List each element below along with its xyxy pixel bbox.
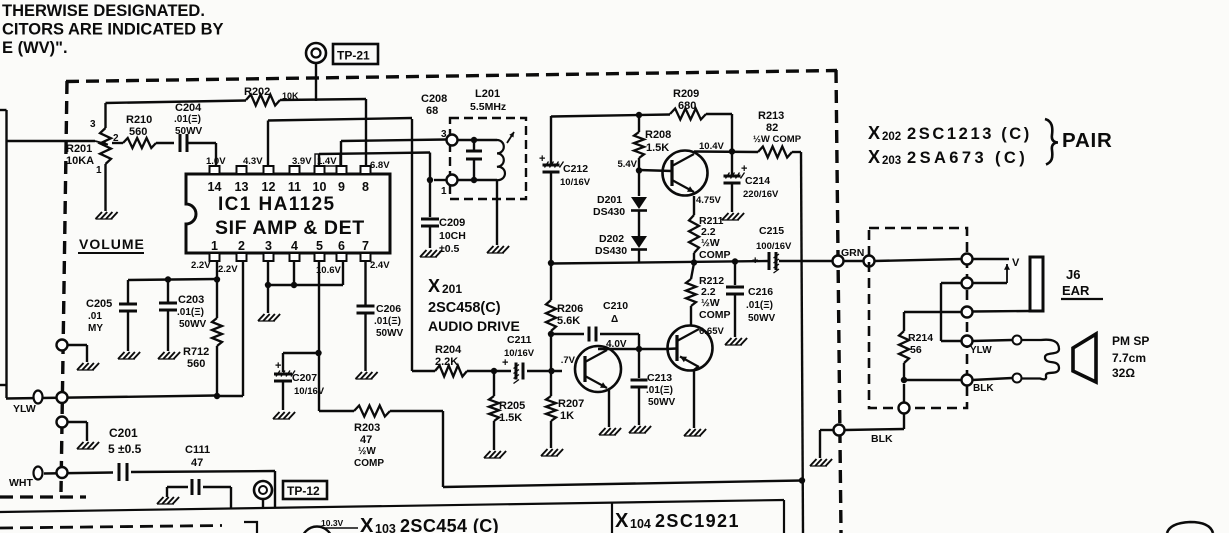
module dashed border right [836,70,841,533]
capacitor C210 [551,300,639,342]
terminal GRN module edge [833,256,844,267]
voltage labels top pins [206,154,390,171]
svg-text:TP-12: TP-12 [287,484,320,498]
pair brace [1045,119,1058,165]
svg-text:GRN: GRN [841,247,864,259]
connector speaker YLW [1013,336,1022,345]
svg-text:.01(Ξ): .01(Ξ) [174,114,201,125]
next module dashed top [0,526,222,529]
coil L201 dashed box [450,118,526,199]
node X201 base junction [548,368,554,374]
X104 box left edge [611,503,613,533]
svg-text:.01(Ξ): .01(Ξ) [646,385,673,396]
wire YLW row [6,396,216,399]
capacitor C209 [421,180,466,255]
wire rail to output row [550,172,552,263]
svg-text:MY: MY [88,323,103,334]
svg-text:6: 6 [338,239,345,253]
svg-text:X: X [615,510,629,532]
wire X203 emitter [694,367,698,428]
ground X201 emitter [599,428,621,435]
VOLUME label [78,236,145,253]
svg-text:2.2V: 2.2V [218,264,238,275]
wire pins3-4-6 tie [268,262,343,285]
voltage label .7V [561,355,576,366]
ground R207 [541,449,563,456]
svg-text:+: + [502,357,508,369]
wire GRN inside jack box [874,259,962,261]
wire L201 bottom [457,179,497,181]
svg-text:4: 4 [291,239,298,253]
IC1 label [215,194,365,239]
svg-text:½W COMP: ½W COMP [753,134,802,145]
wire X202 emitter [693,196,695,215]
svg-text:D201: D201 [597,194,622,206]
svg-text:680: 680 [678,100,696,112]
resistor R712 [183,279,222,396]
wire jack switch to R214 [904,312,962,331]
svg-text:4.0V: 4.0V [606,339,627,350]
svg-text:C213: C213 [647,372,672,384]
svg-text:82: 82 [766,122,778,134]
capacitor C206 [357,303,404,371]
ground R201 [96,164,118,219]
ground C213 [629,426,651,433]
svg-text:.01(Ξ): .01(Ξ) [374,316,401,327]
svg-text:100/16V: 100/16V [756,241,792,252]
svg-text:10/16V: 10/16V [294,386,325,397]
svg-text:10: 10 [313,180,327,194]
svg-text:R201: R201 [66,143,92,155]
svg-text:5 ±0.5: 5 ±0.5 [108,442,142,456]
capacitor C208 label [421,93,447,117]
wire pin5 to R203 [319,410,354,412]
svg-text:EAR: EAR [1062,283,1090,298]
svg-text:C210: C210 [603,300,628,312]
wire pin2 drop [216,262,243,396]
capacitor C207 [274,353,325,410]
svg-text:1.5K: 1.5K [646,142,669,154]
terminal YLW [13,391,43,416]
wire wiper to YLW (left rail) [0,110,7,398]
terminal L201 pin3 [441,129,458,146]
svg-text:2: 2 [238,239,245,253]
voltage labels bottom pins [191,260,390,276]
resistor R208 [634,115,671,196]
svg-text:3: 3 [441,129,447,140]
svg-text:47: 47 [360,434,372,446]
svg-text:5.6K: 5.6K [557,315,580,327]
wire R204 to R205 node [467,370,511,372]
svg-text:5: 5 [316,239,323,253]
svg-text:103: 103 [375,522,396,533]
svg-text:+: + [275,360,281,372]
svg-text:DS430: DS430 [595,245,627,257]
node R205 top [491,368,497,374]
wire X202 base [639,170,672,171]
svg-text:YLW: YLW [13,403,36,415]
svg-text:BLK: BLK [871,433,893,445]
ground C207 [273,412,295,419]
svg-text:14: 14 [208,180,222,194]
test point TP-12 [254,481,327,499]
wire jack tip lead [972,258,1009,260]
svg-text:50WV: 50WV [748,313,776,324]
svg-text:PM SP: PM SP [1112,334,1149,348]
svg-text:1: 1 [211,239,218,253]
capacitor C201 [108,426,275,481]
svg-text:VOLUME: VOLUME [79,236,145,252]
svg-text:Δ: Δ [611,314,618,325]
wire jack switch2 to YLW [941,283,962,341]
resistor R205 [489,371,525,450]
svg-text:C211: C211 [507,334,532,346]
node pins3-4 junction [265,282,297,288]
wire pot-top to R202 [106,101,247,129]
transistor X103 partial circle [302,527,333,533]
wire pin12-drop corner [412,370,435,372]
terminal jack switch [962,278,973,289]
svg-text:½W: ½W [701,297,720,309]
wire X202 collector [694,152,758,154]
svg-text:R210: R210 [126,114,152,126]
svg-text:2SC458(C): 2SC458(C) [428,300,501,316]
svg-text:C204: C204 [175,102,202,114]
svg-text:E (WV)".: E (WV)". [2,39,68,57]
terminal speaker BLK [962,375,995,395]
svg-text:WHT: WHT [9,477,33,489]
svg-text:SIF AMP & DET: SIF AMP & DET [215,217,365,239]
svg-text:C209: C209 [439,217,465,229]
svg-text:10CH: 10CH [439,230,466,242]
capacitor C111 [157,444,231,509]
label V [1012,257,1020,269]
svg-text:50WV: 50WV [179,319,207,330]
node C207 tap [315,350,321,356]
node R211 bottom [691,259,697,265]
earphone jack plug [1030,257,1043,311]
resistor R212 [686,263,731,326]
transistor X201 label block [428,276,520,334]
svg-text:C216: C216 [748,286,773,298]
wire R213 right drop [792,152,803,533]
svg-text:X: X [428,276,440,296]
svg-text:220/16V: 220/16V [743,189,779,200]
svg-text:R209: R209 [673,88,699,100]
capacitor C208 [466,137,482,183]
svg-text:J6: J6 [1066,267,1080,282]
svg-text:R712: R712 [183,346,209,358]
terminal jack sleeve [962,307,973,318]
terminal YLW boundary [57,392,68,403]
resistor R214 [899,331,933,380]
svg-text:47: 47 [191,457,203,469]
wire C215 to GRN [779,260,832,262]
node X202 base tap [636,167,642,173]
svg-text:10KA: 10KA [66,155,94,167]
wire pin9 route [341,140,446,167]
diode D201 [593,194,647,218]
ground L201 [487,246,509,253]
ground C203 [158,352,180,359]
wire WHT row [44,473,113,474]
svg-text:X: X [868,123,880,143]
svg-text:2SC1213 (C): 2SC1213 (C) [907,125,1032,143]
earphone jack dashed box [869,228,967,408]
svg-text:1: 1 [96,165,102,176]
svg-text:5.4V: 5.4V [617,159,637,170]
svg-text:COMP: COMP [699,249,731,261]
wire BLK to ground [820,430,833,458]
wire D201-D202 [638,211,640,237]
ground C205 [118,352,140,359]
svg-text:BLK: BLK [973,383,994,394]
IC1 bottom pin boxes [210,253,371,261]
svg-text:2.2V: 2.2V [191,260,211,271]
terminal GRN jack box [864,256,875,267]
wire BLK row [845,413,904,430]
wire output row [551,261,768,264]
terminal L201 pin1 [441,175,458,198]
wire R202 to pin8 drop [280,99,366,166]
svg-text:R204: R204 [435,344,462,356]
label BLK [871,433,893,445]
voltage label 6.65V [699,326,724,337]
ground R205 [484,451,506,458]
svg-text:68: 68 [426,105,438,117]
svg-text:50WV: 50WV [648,397,676,408]
svg-text:5.5MHz: 5.5MHz [470,101,506,113]
wire L201 top [457,139,497,141]
wire C204 to pin14 [215,143,217,166]
capacitor C205 [86,280,137,351]
svg-text:TP-21: TP-21 [337,49,370,63]
wire jack switch arrow [972,264,1010,283]
node bottom feedback [799,477,805,483]
svg-text:D202: D202 [599,233,624,245]
svg-text:L201: L201 [475,88,500,100]
ground shield lower [77,442,99,449]
node R214 bottom [901,377,907,383]
svg-text:50WV: 50WV [376,328,404,339]
svg-text:56: 56 [910,344,922,356]
svg-text:R208: R208 [645,129,671,141]
svg-text:C111: C111 [185,444,210,456]
test point TP-21 [306,43,378,64]
wire GRN gap [843,260,864,262]
svg-text:C201: C201 [109,426,138,440]
terminal shield upper [57,340,88,363]
svg-text:R205: R205 [499,400,525,412]
svg-text:1: 1 [441,186,447,197]
svg-text:DS430: DS430 [593,206,625,218]
svg-text:C206: C206 [376,303,401,315]
X104 box right edge [783,500,785,533]
wire C210 to collector node [638,334,640,349]
node R712 bottom [214,393,220,399]
svg-text:.01(Ξ): .01(Ξ) [177,307,204,318]
svg-text:YLW: YLW [970,345,992,356]
wire L201 center tap [496,180,498,245]
svg-text:V: V [1012,257,1020,269]
svg-text:X: X [868,147,880,167]
next stage box corner [244,522,257,533]
svg-text:7: 7 [362,239,369,253]
svg-text:11: 11 [288,180,301,194]
svg-text:R214: R214 [908,332,933,344]
capacitor C213 [631,349,676,425]
IC U1 IC1 HA1125 body [186,174,390,253]
voltage label 10.3V [321,518,358,528]
svg-text:2SC454 (C): 2SC454 (C) [400,516,499,533]
label J6 EAR [1061,267,1103,299]
potentiometer R201 [66,119,119,176]
terminal BLK module edge [834,425,845,436]
svg-text:R202: R202 [244,86,270,98]
stage divider line [0,500,784,512]
ground C214 [722,213,744,220]
svg-text:1.5K: 1.5K [499,412,522,424]
svg-text:1K: 1K [560,410,574,422]
transistor X104 label [615,510,740,532]
label GRN [841,247,864,259]
ground X203 emitter [684,429,706,436]
wire X201 emitter [608,390,610,427]
svg-text:R203: R203 [354,422,380,434]
capacitor C204 [156,102,216,152]
node output row left end [548,260,554,266]
svg-text:+: + [752,255,758,267]
svg-text:CITORS ARE INDICATED BY: CITORS ARE INDICATED BY [2,21,224,39]
svg-text:.7V: .7V [561,355,576,366]
wire R201 wiper [7,141,109,146]
ground BLK [810,459,832,466]
wire pin5 drop [318,262,320,411]
resistor R210 [112,114,156,148]
wire R203 to bottom [390,411,802,487]
balloon arc bottom right [1167,522,1213,533]
svg-text:C203: C203 [178,294,204,306]
svg-text:4.75V: 4.75V [696,195,721,206]
module dashed border left [61,81,67,492]
svg-text:PAIR: PAIR [1062,129,1113,152]
svg-text:12: 12 [262,180,276,194]
capacitor C216 [726,262,776,337]
svg-text:±0.5: ±0.5 [439,243,460,255]
svg-text:COMP: COMP [699,309,731,321]
wire pin12 route [268,118,412,166]
svg-text:C212: C212 [563,163,588,175]
capacitor C214 [724,151,780,212]
wire WHT to bottom line [274,471,276,508]
capacitor C211 [502,334,562,384]
wire jack sleeve lead [972,310,1030,313]
svg-text:C208: C208 [421,93,447,105]
transistor X201 [575,346,621,392]
svg-text:560: 560 [129,126,147,138]
svg-text:8: 8 [362,180,369,194]
svg-text:R213: R213 [758,110,784,122]
svg-text:13: 13 [235,180,249,194]
terminal speaker YLW [962,336,993,357]
wire D202 to output row [638,250,640,264]
wire R214 to BLK terminal [904,379,962,381]
wire pin1 node [128,262,217,280]
svg-text:7.7cm: 7.7cm [1112,351,1146,365]
svg-text:202: 202 [882,131,901,143]
node collector 10.4V [729,148,735,154]
resistor R213 [753,110,802,158]
resistor R202 [244,86,299,106]
svg-text:1.0V: 1.0V [206,156,226,167]
wire TP-21 stem [315,63,317,101]
svg-text:+: + [741,163,747,175]
node R208 top [636,112,642,118]
svg-text:4.3V: 4.3V [243,156,263,167]
svg-text:.01(Ξ): .01(Ξ) [746,300,773,311]
terminal WHT boundary [57,467,68,478]
svg-text:3: 3 [265,239,272,253]
inductor L201 winding [497,140,505,180]
svg-text:50WV: 50WV [175,126,203,137]
resistor R204 [435,344,467,377]
voltage label 4.75V [696,195,721,206]
node pin1 junction [165,276,220,282]
svg-text:9: 9 [338,180,345,194]
node C216 top [732,258,738,264]
module dashed border bottom-left [0,495,86,498]
transistor X203 label [868,147,1028,167]
svg-text:IC1 HA1125: IC1 HA1125 [218,194,336,215]
transistor X202 [663,151,708,196]
IC1 top pin boxes [210,166,371,174]
svg-text:C205: C205 [86,298,112,310]
wire TP-12 stem [262,499,264,507]
diode D202 [595,233,647,257]
ground shield upper [77,363,99,370]
resistor R206 [546,263,583,334]
voltage label 4.0V [606,339,627,350]
svg-text:AUDIO DRIVE: AUDIO DRIVE [428,318,520,334]
svg-text:2.4V: 2.4V [370,260,390,271]
transistor X203 [668,326,713,371]
capacitor C212 [539,153,591,188]
speaker PM SP [1073,334,1096,382]
wire top rail [551,115,670,117]
svg-text:104: 104 [630,517,651,531]
wire rail top [550,116,552,164]
speaker label [1112,334,1149,380]
node collector 4.0V [636,346,642,352]
svg-text:2SA673 (C): 2SA673 (C) [907,149,1028,167]
capacitor C215 [752,225,792,273]
svg-text:C215: C215 [759,225,784,237]
wire speaker YLW lead [972,340,1012,341]
svg-text:½W: ½W [358,446,376,457]
svg-text:COMP: COMP [354,458,384,469]
transistor X103 label [360,515,499,533]
svg-text:6.65V: 6.65V [699,326,724,337]
IC1 top pin numbers [208,180,369,194]
IC1 bottom pin numbers [211,239,369,253]
svg-text:½W: ½W [701,237,720,249]
svg-text:6.8V: 6.8V [370,160,390,171]
resistor R207 [546,396,584,448]
svg-text:+: + [539,153,545,165]
ground C216 [725,338,747,345]
resistor R211 [689,215,731,263]
svg-text:10/16V: 10/16V [504,348,535,359]
